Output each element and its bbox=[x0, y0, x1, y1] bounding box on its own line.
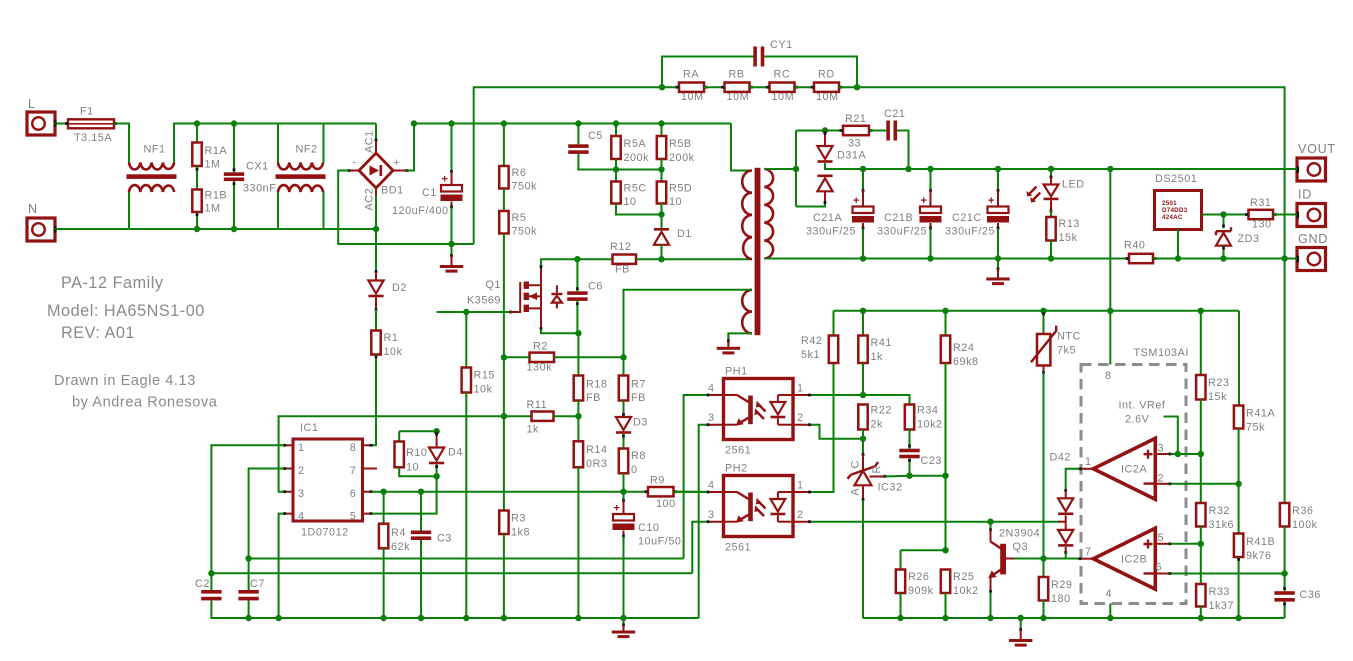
capacitor CX1 bbox=[224, 161, 277, 195]
svg-text:Int. VRef: Int. VRef bbox=[1119, 400, 1166, 412]
junction bbox=[245, 615, 251, 621]
junction bbox=[1235, 615, 1241, 621]
svg-text:R12: R12 bbox=[610, 241, 631, 253]
junction bbox=[942, 615, 948, 621]
svg-text:10k: 10k bbox=[474, 384, 493, 396]
wire bbox=[435, 465, 438, 477]
wire (D42 mid link) bbox=[1058, 521, 1066, 523]
svg-text:4: 4 bbox=[298, 511, 304, 523]
IC TSM103AI (dashed outline) bbox=[1081, 347, 1189, 604]
resistor RA bbox=[676, 69, 708, 92]
capacitor CY1 bbox=[753, 39, 792, 67]
svg-text:31k6: 31k6 bbox=[1209, 519, 1235, 531]
svg-text:C7: C7 bbox=[250, 578, 265, 590]
svg-text:R41: R41 bbox=[871, 337, 892, 349]
junction bbox=[995, 166, 1001, 172]
svg-text:10uF/50: 10uF/50 bbox=[638, 536, 681, 548]
wire bbox=[277, 124, 279, 163]
svg-text:750k: 750k bbox=[512, 226, 538, 238]
wire bbox=[323, 124, 325, 163]
wire bbox=[623, 473, 625, 491]
junction bbox=[463, 615, 469, 621]
resistor R21 bbox=[840, 113, 873, 150]
svg-text:+: + bbox=[853, 195, 859, 207]
svg-text:7k5: 7k5 bbox=[1057, 345, 1076, 357]
svg-text:3: 3 bbox=[708, 509, 714, 521]
resistor R1 bbox=[371, 331, 402, 359]
svg-text:PH1: PH1 bbox=[725, 366, 748, 378]
pin 1 label bbox=[298, 442, 304, 454]
svg-text:R15: R15 bbox=[474, 370, 495, 382]
transformer core bbox=[755, 168, 761, 335]
wire (to CY1 net) bbox=[474, 87, 662, 244]
wire (pin6 row) bbox=[1170, 573, 1284, 575]
svg-text:R26: R26 bbox=[908, 571, 929, 583]
resistor RC bbox=[766, 69, 798, 92]
svg-text:1: 1 bbox=[797, 383, 803, 395]
svg-text:3: 3 bbox=[708, 412, 714, 424]
svg-text:909k: 909k bbox=[908, 585, 934, 597]
svg-text:R1B: R1B bbox=[205, 190, 228, 202]
junction bbox=[1040, 555, 1046, 561]
wire bbox=[1200, 400, 1202, 455]
svg-text:2561: 2561 bbox=[725, 542, 751, 554]
junction bbox=[659, 84, 665, 90]
svg-text:VOUT: VOUT bbox=[1298, 142, 1336, 156]
wire bbox=[1050, 241, 1052, 259]
junction bbox=[860, 436, 866, 442]
wire bbox=[503, 189, 505, 212]
wire (top HV rail) bbox=[414, 123, 731, 125]
junction bbox=[275, 615, 281, 621]
resistor RB bbox=[721, 69, 753, 92]
svg-text:FB: FB bbox=[615, 264, 630, 276]
wire bbox=[1043, 601, 1045, 619]
svg-text:R32: R32 bbox=[1209, 505, 1230, 517]
svg-text:ZD3: ZD3 bbox=[1238, 233, 1260, 245]
wire bbox=[636, 258, 752, 260]
junction bbox=[1107, 166, 1113, 172]
svg-text:2501: 2501 bbox=[1162, 200, 1177, 207]
capacitor C21B bbox=[877, 195, 942, 238]
junction bbox=[1198, 308, 1204, 314]
ground (aux) bbox=[717, 333, 740, 354]
svg-text:8: 8 bbox=[1105, 370, 1111, 382]
wire bbox=[796, 204, 825, 207]
svg-text:IC2A: IC2A bbox=[1121, 464, 1147, 476]
wire bbox=[577, 467, 579, 618]
svg-text:4: 4 bbox=[708, 383, 714, 395]
wire bbox=[997, 169, 1000, 207]
junction bbox=[942, 547, 948, 553]
svg-text:TSM103AI: TSM103AI bbox=[1134, 347, 1189, 359]
wire (IC32 anode) bbox=[862, 500, 864, 618]
svg-text:6: 6 bbox=[350, 488, 356, 500]
ground (Q3) bbox=[1009, 618, 1032, 647]
resistor R2 bbox=[527, 341, 555, 374]
junction bbox=[501, 615, 507, 621]
wire bbox=[945, 476, 947, 551]
junction bbox=[1281, 570, 1287, 576]
svg-text:C21A: C21A bbox=[813, 212, 842, 224]
resistor R5 bbox=[499, 211, 537, 238]
wire bbox=[1050, 200, 1053, 217]
svg-text:120uF/400: 120uF/400 bbox=[392, 205, 449, 217]
svg-text:PA-12 Family: PA-12 Family bbox=[61, 274, 164, 292]
shunt regulator IC32 bbox=[848, 439, 903, 501]
resistor R8 bbox=[619, 434, 646, 476]
resistor R10 bbox=[395, 431, 428, 473]
junction bbox=[942, 308, 948, 314]
wire bbox=[908, 458, 911, 475]
wire (pin2 to C7) bbox=[249, 469, 284, 559]
svg-text:1k: 1k bbox=[527, 424, 540, 436]
wire bbox=[908, 430, 911, 449]
LED bbox=[1026, 169, 1084, 203]
resistor R41B bbox=[1234, 484, 1275, 562]
wire (PH2.1) bbox=[811, 363, 834, 492]
resistor R41A bbox=[1234, 406, 1276, 434]
svg-text:6: 6 bbox=[1156, 562, 1162, 574]
junction bbox=[194, 120, 200, 126]
pin stubs IC1 bbox=[283, 444, 377, 515]
svg-text:RA: RA bbox=[683, 69, 699, 81]
svg-text:750k: 750k bbox=[512, 181, 538, 193]
junction bbox=[620, 615, 626, 621]
wire bbox=[503, 234, 505, 358]
wire (pin1 to C2) bbox=[211, 445, 284, 573]
wire bbox=[323, 192, 325, 229]
thermistor NTC bbox=[1031, 311, 1081, 366]
junction bbox=[1040, 615, 1046, 621]
svg-text:3: 3 bbox=[1158, 443, 1164, 455]
wire bbox=[661, 159, 663, 170]
svg-text:Q1: Q1 bbox=[485, 279, 501, 291]
wire bbox=[622, 492, 625, 514]
svg-text:AC2: AC2 bbox=[364, 188, 376, 211]
wire bbox=[577, 401, 579, 417]
wire bbox=[900, 593, 902, 618]
svg-text:FB: FB bbox=[586, 392, 601, 404]
svg-text:130: 130 bbox=[1252, 219, 1272, 231]
svg-text:CY1: CY1 bbox=[770, 39, 793, 51]
wire bbox=[997, 223, 1000, 259]
node N (mains connector N) bbox=[27, 202, 57, 241]
svg-text:by Andrea Ronesova: by Andrea Ronesova bbox=[72, 395, 218, 411]
pin 3 label bbox=[298, 488, 304, 500]
svg-text:R21: R21 bbox=[845, 113, 866, 125]
svg-text:1k37: 1k37 bbox=[1209, 600, 1235, 612]
wire bbox=[1153, 258, 1290, 260]
wire bbox=[465, 393, 467, 619]
wire bbox=[862, 363, 864, 395]
wire (drain node) bbox=[577, 258, 612, 260]
wire (R3 branch) bbox=[503, 416, 505, 510]
resistor R42 bbox=[801, 311, 838, 363]
svg-text:D74DD3: D74DD3 bbox=[1162, 207, 1188, 214]
svg-text:DS2501: DS2501 bbox=[1155, 173, 1197, 185]
wire (PH2.3) bbox=[692, 522, 707, 574]
svg-text:T3.15A: T3.15A bbox=[74, 132, 112, 144]
svg-text:1D07012: 1D07012 bbox=[301, 527, 349, 539]
pin 7 label bbox=[350, 465, 356, 477]
svg-text:C6: C6 bbox=[588, 281, 603, 293]
junction bbox=[1175, 255, 1181, 261]
junction bbox=[463, 309, 469, 315]
svg-text:330nF: 330nF bbox=[243, 183, 276, 195]
wire (R41A branch) bbox=[1238, 311, 1240, 406]
wire bbox=[450, 124, 453, 186]
wire bbox=[616, 204, 662, 215]
svg-text:R18: R18 bbox=[586, 379, 607, 391]
svg-text:1M: 1M bbox=[205, 159, 221, 171]
pin 8 label bbox=[350, 442, 356, 454]
resistor R1B bbox=[192, 190, 227, 215]
wire bbox=[885, 475, 910, 478]
svg-text:3: 3 bbox=[298, 488, 304, 500]
junction bbox=[1040, 308, 1046, 314]
junction bbox=[987, 615, 993, 621]
svg-text:2.6V: 2.6V bbox=[1125, 414, 1150, 426]
wire (PH1.4) bbox=[684, 395, 707, 559]
junction bbox=[575, 615, 581, 621]
svg-text:R34: R34 bbox=[917, 405, 938, 417]
svg-text:10k: 10k bbox=[384, 346, 403, 358]
resistor R4 bbox=[379, 524, 410, 553]
pin 2 label bbox=[298, 465, 304, 477]
resistor R14 bbox=[574, 416, 608, 470]
capacitor C21C bbox=[945, 195, 1009, 238]
resistor R13 bbox=[1046, 217, 1080, 244]
wire bbox=[1284, 527, 1286, 574]
svg-text:D2: D2 bbox=[392, 282, 407, 294]
junction bbox=[245, 555, 251, 561]
svg-text:2: 2 bbox=[298, 465, 304, 477]
svg-text:62k: 62k bbox=[391, 541, 410, 553]
svg-text:C21C: C21C bbox=[952, 212, 982, 224]
wire bbox=[615, 159, 617, 170]
wire bbox=[704, 86, 725, 88]
svg-text:IC2B: IC2B bbox=[1121, 554, 1147, 566]
capacitor C3 bbox=[411, 531, 452, 545]
svg-text:IC32: IC32 bbox=[878, 482, 903, 494]
junction bbox=[822, 127, 828, 133]
title text bbox=[47, 302, 205, 320]
svg-text:Model: HA65NS1-00: Model: HA65NS1-00 bbox=[47, 302, 205, 320]
svg-text:200k: 200k bbox=[669, 152, 695, 164]
wire bbox=[750, 86, 770, 88]
junction bbox=[418, 489, 424, 495]
svg-text:R33: R33 bbox=[1209, 586, 1230, 598]
wire (pin3 node) bbox=[1170, 453, 1201, 455]
wire bbox=[929, 169, 932, 207]
wire bbox=[945, 363, 947, 476]
junction bbox=[1220, 211, 1226, 217]
resistor R7 bbox=[619, 357, 646, 404]
wire bbox=[55, 192, 129, 229]
resistor R31 bbox=[1245, 197, 1276, 231]
wire bbox=[1044, 558, 1066, 560]
wire bbox=[869, 130, 886, 132]
resistor R3 bbox=[499, 511, 530, 539]
capacitor C21A bbox=[806, 195, 874, 238]
wire bbox=[661, 204, 663, 215]
svg-text:10: 10 bbox=[669, 196, 682, 208]
wire bbox=[1283, 602, 1286, 618]
svg-text:RD: RD bbox=[818, 69, 835, 81]
junction bbox=[658, 166, 664, 172]
wire (BD1 plus) bbox=[393, 124, 414, 172]
svg-text:330uF/25: 330uF/25 bbox=[945, 226, 995, 238]
svg-text:+: + bbox=[614, 503, 620, 515]
junction bbox=[620, 489, 626, 495]
svg-text:100: 100 bbox=[656, 498, 676, 510]
svg-text:Q3: Q3 bbox=[1013, 541, 1029, 553]
resistor R5A bbox=[611, 136, 649, 164]
diode D31A lower bbox=[817, 175, 832, 205]
svg-text:1k: 1k bbox=[871, 351, 884, 363]
junction bbox=[854, 84, 860, 90]
wire bbox=[945, 593, 947, 618]
svg-text:2: 2 bbox=[1158, 473, 1164, 485]
capacitor C36 bbox=[1274, 574, 1321, 602]
capacitor C6 bbox=[567, 281, 603, 301]
junction bbox=[905, 166, 911, 172]
wire bbox=[576, 259, 579, 291]
wire bbox=[839, 86, 857, 88]
svg-text:C36: C36 bbox=[1300, 589, 1321, 601]
transistor Q1 bbox=[467, 265, 562, 330]
ground (output) bbox=[986, 259, 1009, 286]
svg-text:K3569: K3569 bbox=[467, 295, 501, 307]
wire bbox=[114, 124, 129, 163]
junction bbox=[1281, 255, 1287, 261]
svg-text:D31A: D31A bbox=[837, 150, 866, 162]
wire bbox=[233, 181, 236, 229]
wire bbox=[662, 57, 754, 88]
optocoupler PH2 bbox=[707, 463, 811, 554]
junction bbox=[231, 226, 237, 232]
wire (base node down) bbox=[1043, 559, 1045, 578]
wire bbox=[554, 415, 579, 417]
choke NF1 bbox=[127, 144, 177, 193]
svg-text:BD1: BD1 bbox=[381, 185, 404, 197]
wire bbox=[862, 223, 865, 259]
svg-text:+: + bbox=[442, 174, 448, 186]
resistor R22 bbox=[858, 405, 892, 431]
svg-text:4: 4 bbox=[708, 480, 714, 492]
node VOUT (connector) bbox=[1285, 142, 1336, 181]
svg-text:+: + bbox=[921, 195, 927, 207]
transformer aux winding bbox=[742, 290, 752, 334]
svg-text:R1A: R1A bbox=[205, 145, 228, 157]
junction bbox=[575, 413, 581, 419]
resistor R5B bbox=[657, 136, 695, 164]
svg-text:GND: GND bbox=[1298, 232, 1328, 246]
wire bbox=[196, 166, 199, 190]
wire (gate drive row) bbox=[437, 311, 512, 314]
junction bbox=[906, 473, 912, 479]
capacitor C5 bbox=[568, 130, 603, 154]
resistor R12 bbox=[610, 241, 636, 276]
wire bbox=[1200, 607, 1202, 619]
title text bbox=[54, 373, 196, 389]
wire bbox=[825, 163, 863, 169]
pin 8 (TSM103) bbox=[1105, 311, 1111, 382]
wire bbox=[576, 301, 579, 333]
wire bbox=[129, 228, 376, 230]
wire bbox=[1200, 527, 1202, 544]
wire bbox=[383, 548, 385, 618]
svg-text:9k76: 9k76 bbox=[1246, 550, 1272, 562]
svg-text:D3: D3 bbox=[633, 417, 648, 429]
svg-text:R41A: R41A bbox=[1246, 408, 1275, 420]
svg-text:R42: R42 bbox=[801, 335, 822, 347]
junction bbox=[613, 120, 619, 126]
wire (BD1 minus) bbox=[338, 169, 474, 244]
svg-text:1: 1 bbox=[797, 480, 803, 492]
svg-text:R5: R5 bbox=[512, 212, 527, 224]
capacitor C1 bbox=[392, 174, 463, 218]
svg-text:10k2: 10k2 bbox=[917, 419, 943, 431]
diode D1 bbox=[654, 228, 692, 245]
junction bbox=[658, 120, 664, 126]
wire bbox=[662, 86, 679, 88]
svg-text:R8: R8 bbox=[631, 450, 646, 462]
resistor R5D bbox=[657, 182, 692, 209]
resistor R29 bbox=[1039, 577, 1073, 605]
svg-text:75k: 75k bbox=[1246, 422, 1265, 434]
svg-text:NTC: NTC bbox=[1057, 331, 1081, 343]
junction bbox=[897, 615, 903, 621]
resistor R24 bbox=[941, 311, 979, 368]
junction bbox=[433, 428, 439, 434]
junction bbox=[1107, 308, 1113, 314]
junction bbox=[574, 256, 580, 262]
wire (bridge to secondary) bbox=[857, 87, 1285, 258]
value label RB bbox=[727, 91, 750, 103]
capacitor C21 bbox=[884, 108, 905, 141]
junction bbox=[411, 120, 417, 126]
wire bbox=[615, 170, 617, 182]
svg-text:+: + bbox=[394, 157, 401, 169]
svg-text:R31: R31 bbox=[1250, 197, 1271, 209]
junction bbox=[433, 473, 439, 479]
wire (pin6 row) bbox=[372, 491, 649, 493]
svg-text:130k: 130k bbox=[527, 362, 553, 374]
wire (rail C2-PH2) bbox=[211, 572, 692, 574]
resistor R11 bbox=[527, 399, 554, 436]
svg-text:R2: R2 bbox=[533, 341, 548, 353]
junction bbox=[194, 226, 200, 232]
diode D3 bbox=[616, 401, 648, 434]
wire (pin2 row) bbox=[1170, 483, 1238, 485]
wire bbox=[277, 192, 279, 229]
junction bbox=[575, 330, 581, 336]
wire bbox=[615, 124, 617, 137]
title text bbox=[61, 324, 135, 342]
svg-text:R23: R23 bbox=[1208, 377, 1229, 389]
svg-text:ID: ID bbox=[1298, 188, 1312, 202]
title text bbox=[61, 274, 164, 292]
svg-text:5k1: 5k1 bbox=[801, 349, 820, 361]
wire (pin3 up) bbox=[279, 416, 532, 492]
junction bbox=[1175, 451, 1181, 457]
wire bbox=[764, 57, 857, 88]
transformer primary winding bbox=[742, 171, 752, 260]
wire bbox=[420, 492, 422, 531]
svg-text:15k: 15k bbox=[1059, 232, 1078, 244]
